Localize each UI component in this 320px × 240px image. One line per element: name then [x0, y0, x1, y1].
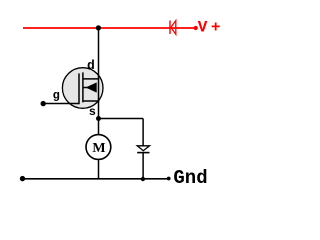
wire: top V+ rail (red)	[23, 27, 196, 29]
node: ground terminal dot (right)	[167, 177, 171, 181]
svg-text:+: +	[211, 19, 221, 37]
diode D1 triangle (red)	[171, 21, 176, 35]
transistor Q1 channel line	[82, 72, 84, 102]
gate terminal dot	[41, 101, 46, 106]
svg-text:s: s	[89, 105, 96, 119]
svg-text:V: V	[198, 19, 208, 37]
wire: flyback branch vertical lower	[142, 153, 144, 179]
junction dot: drain rail tap	[96, 25, 101, 30]
svg-text:g: g	[53, 89, 60, 103]
wire: source vertical down to node	[98, 101, 100, 135]
motor M1 circle	[86, 135, 111, 160]
junction dot: source node	[96, 116, 101, 121]
transistor Q1 source stub	[83, 100, 99, 102]
transistor Q1 body circle	[62, 68, 103, 109]
junction dot: flyback to ground rail	[141, 177, 145, 181]
wire: motor bottom to ground rail	[98, 159, 100, 179]
transistor Q1 internal right vertical (arrow base to source stub)	[98, 79, 100, 101]
node V+ terminal dot (red)	[194, 26, 198, 30]
svg-text:d: d	[87, 58, 95, 73]
wire: node to flyback diode branch (horizontal)	[99, 118, 144, 120]
wire: flyback branch vertical upper	[142, 119, 144, 147]
transistor Q1 gate plate	[78, 73, 80, 104]
svg-text:M: M	[92, 141, 105, 156]
transistor Q1 drain stub	[83, 78, 99, 80]
wire: ground rail	[23, 178, 169, 180]
wire: drain vertical from V+ rail to Q1	[98, 28, 100, 79]
diode D2 triangle (flyback, points down)	[137, 146, 149, 151]
diode D1 cathode bar (red, series in V+ rail)	[169, 21, 171, 35]
wire: gate lead	[43, 103, 79, 105]
node: ground rail left terminal dot	[20, 176, 25, 181]
svg-text:Gnd: Gnd	[173, 167, 207, 189]
diode D2 cathode bar	[137, 152, 149, 154]
transistor Q1 body arrow (points left)	[83, 87, 88, 89]
